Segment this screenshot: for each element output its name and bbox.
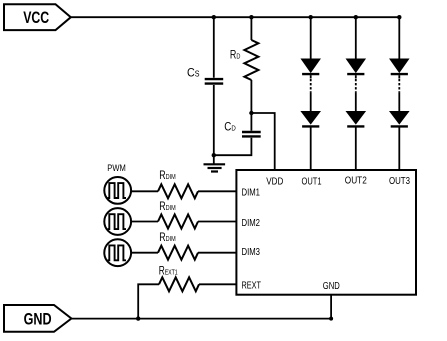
wire LED string 3 to OUT3 (398, 128, 400, 171)
wire RD top (250, 17, 252, 40)
svg-text:DIM1: DIM1 (242, 188, 261, 199)
wire RDIM2 to DIM2 (198, 221, 236, 223)
svg-text:GND: GND (24, 309, 52, 328)
capacitor CS (187, 66, 223, 84)
svg-text:GND: GND (323, 281, 340, 292)
LED string2 diode 1 (347, 59, 366, 74)
wire LED string 1 dotted segment (310, 75, 312, 78)
capacitor CD (224, 120, 260, 137)
resistor RDIM1 (158, 168, 198, 199)
wire CS top (213, 17, 215, 77)
wire PWM1 to RDIM1 (131, 190, 158, 192)
wire VCC rail (71, 16, 400, 18)
LED string1 diode 2 (301, 112, 320, 127)
wire CS bottom (213, 85, 215, 155)
resistor RDIM3 (158, 230, 198, 260)
node VCC-LED2 junction (354, 15, 358, 19)
resistor REXT1 (159, 263, 199, 291)
wire CD top (250, 113, 252, 131)
node CS-CD-ground junction (212, 153, 216, 157)
wire LED string 2 top (355, 17, 357, 59)
wire LED string 1 top (310, 17, 312, 59)
LED string1 diode 1 (301, 59, 320, 74)
svg-text:OUT2: OUT2 (345, 176, 367, 187)
node VCC-LED1 junction (309, 15, 313, 19)
node GND pin corner (329, 317, 333, 321)
PWM source 1 (104, 177, 131, 204)
wire REXT1 to REXT pin (199, 283, 236, 285)
wire PWM3 to RDIM3 (131, 252, 158, 254)
wire junction to VDD (251, 113, 274, 170)
node VCC-CS junction (212, 15, 216, 19)
wire LED string 1 to OUT1 (310, 128, 312, 171)
wire to ground (213, 155, 215, 164)
LED string3 diode 1 (390, 59, 409, 74)
wire RD bottom (250, 80, 252, 113)
wire LED string 2 to OUT2 (355, 128, 357, 171)
svg-text:OUT1: OUT1 (302, 177, 322, 188)
wire PWM2 to RDIM2 (131, 221, 158, 223)
svg-text:VCC: VCC (23, 8, 49, 27)
wire CD bottom to ground net (214, 138, 252, 156)
wire RDIM3 to DIM3 (198, 252, 236, 254)
node VCC-RD junction (249, 15, 253, 19)
svg-text:OUT3: OUT3 (389, 176, 410, 187)
svg-text:PWM: PWM (107, 163, 126, 173)
ground (204, 164, 226, 171)
resistor RD (230, 40, 259, 80)
GND terminal (4, 305, 71, 332)
node RD-CD junction (249, 111, 253, 115)
svg-text:REXT: REXT (242, 281, 262, 292)
resistor RDIM2 (158, 199, 198, 229)
LED string3 diode 2 (390, 112, 409, 127)
wire LED string 3 dotted segment (398, 75, 400, 78)
IC U1 LED driver (236, 170, 416, 295)
svg-text:DIM3: DIM3 (242, 247, 261, 258)
wire RDIM1 to DIM1 (198, 190, 236, 192)
PWM source 3 (104, 239, 131, 266)
LED string2 diode 2 (347, 112, 366, 127)
wire LED string 2 dotted segment (355, 75, 357, 78)
wire REXT1 left leg (138, 284, 159, 318)
wire GND rail (71, 318, 331, 320)
node VCC-LED3 corner (397, 15, 401, 19)
svg-text:VDD: VDD (266, 177, 283, 188)
svg-text:DIM2: DIM2 (242, 218, 261, 229)
VCC terminal (4, 4, 71, 30)
PWM source 2 (104, 208, 131, 235)
wire LED string 3 top (398, 17, 400, 59)
node REXT1-GND junction (136, 316, 140, 320)
wire GND pin (330, 295, 332, 319)
